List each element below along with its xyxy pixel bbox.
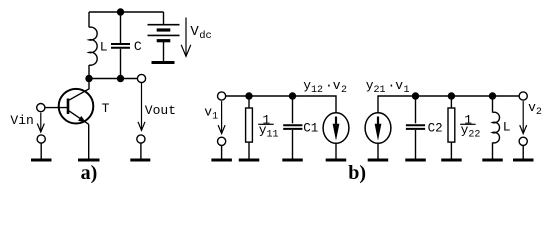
svg-text:2: 2: [341, 85, 347, 96]
inductor L (output): [493, 112, 500, 143]
wire R1 top stub: [248, 96, 250, 108]
wire emitter down: [88, 124, 90, 158]
inductor L: [89, 27, 97, 65]
ground source2: [368, 159, 389, 162]
wire L top stub: [88, 12, 90, 27]
svg-text:11: 11: [267, 129, 279, 140]
svg-text:T: T: [102, 101, 110, 116]
wire C2 top stub: [415, 96, 417, 123]
svg-text:22: 22: [468, 129, 480, 140]
ground Vin: [31, 159, 52, 162]
node Vin terminal bottom: [37, 135, 45, 143]
transistor base bar: [67, 99, 70, 115]
wire input rail: [226, 96, 336, 113]
node v1 terminal bottom: [218, 137, 226, 145]
svg-text:C: C: [134, 39, 142, 54]
arrow inside source 1: [335, 117, 337, 127]
svg-text:21: 21: [374, 85, 386, 96]
svg-text:y: y: [366, 78, 374, 93]
svg-text:V: V: [190, 24, 199, 40]
arrow Vdc: [181, 18, 191, 57]
svg-text:dc: dc: [199, 30, 212, 42]
wire R2 top stub: [450, 96, 452, 108]
ground C1: [282, 159, 303, 162]
wire Vin ground stub: [40, 143, 42, 159]
svg-text:·v: ·v: [325, 78, 341, 93]
node rail-R2 junction: [448, 92, 455, 99]
svg-text:Vout: Vout: [145, 103, 176, 118]
node rail-C1 junction: [289, 92, 296, 99]
node v2 terminal top: [519, 92, 527, 100]
ground emitter: [78, 159, 100, 162]
resistor 1/y22: [448, 108, 455, 142]
ground source1: [326, 159, 347, 162]
wire source2 top stub + output rail: [378, 96, 519, 113]
wire source1 bottom stub: [335, 143, 337, 158]
svg-text:Vin: Vin: [10, 113, 33, 128]
node rail-C2 junction: [412, 92, 419, 99]
wire R2 bottom stub: [450, 142, 452, 159]
wire L bottom stub: [88, 65, 90, 79]
node rail-C junction: [117, 75, 124, 82]
node v1 terminal top: [218, 92, 226, 100]
wire base lead: [45, 107, 67, 109]
wire C2 bottom stub: [415, 130, 417, 159]
transistor Q1 body: [59, 89, 94, 124]
arrow v2: [520, 101, 527, 134]
svg-text:1: 1: [212, 112, 218, 123]
wire top rail: [89, 11, 164, 13]
arrow inside source 2: [377, 117, 379, 127]
svg-text:1: 1: [404, 85, 410, 96]
svg-text:·v: ·v: [388, 78, 404, 93]
wire C top stub: [120, 12, 122, 43]
node rail-L junction: [489, 92, 496, 99]
current source y21·v1: [365, 113, 391, 144]
node rail-R1 junction: [245, 92, 252, 99]
svg-text:L: L: [503, 119, 511, 134]
node Vout terminal bottom: [137, 135, 145, 143]
capacitor C: [111, 44, 130, 48]
svg-text:a): a): [81, 162, 98, 184]
ground C2: [405, 159, 426, 162]
svg-text:v: v: [204, 104, 212, 119]
wire L2 bottom stub: [492, 143, 494, 159]
node rail-L junction: [85, 75, 92, 82]
arrow Vout: [138, 83, 145, 130]
node v2 terminal bottom: [519, 137, 527, 145]
current source y12·v2: [323, 113, 349, 144]
node Vin terminal top: [37, 104, 45, 112]
node top-rail junction: [117, 8, 124, 15]
ground R1: [239, 159, 259, 162]
svg-text:2: 2: [536, 107, 542, 118]
wire C1 bottom stub: [292, 130, 294, 159]
ground Vout: [130, 159, 150, 162]
wire collector lead: [69, 79, 89, 101]
svg-text:y: y: [303, 78, 311, 93]
svg-text:L: L: [100, 39, 108, 54]
capacitor C2: [406, 125, 425, 129]
label 1/y22: [461, 112, 481, 140]
wire Vout ground stub: [140, 143, 142, 159]
svg-text:12: 12: [311, 85, 323, 96]
label 1/y11: [259, 112, 279, 140]
label y21·v1: [366, 78, 410, 96]
wire source2 bottom stub: [377, 143, 379, 158]
ground v1: [211, 159, 232, 162]
svg-text:C1: C1: [303, 122, 318, 136]
wire emitter lead with arrow: [69, 111, 89, 125]
ground R2: [441, 159, 462, 162]
wire v1 ground stub: [221, 145, 223, 158]
battery Vdc plates: [148, 25, 180, 41]
wire L2 top stub: [492, 96, 494, 113]
wire v2 ground stub: [522, 145, 524, 158]
wire battery bottom stub: [163, 41, 165, 61]
ground L2: [482, 159, 503, 162]
resistor 1/y11: [246, 108, 253, 142]
arrow Vin: [37, 113, 44, 132]
wire C1 top stub: [292, 96, 294, 123]
capacitor C1: [283, 125, 302, 129]
wire battery top stub: [163, 12, 165, 25]
ground v2: [513, 159, 534, 162]
svg-text:C2: C2: [428, 122, 443, 136]
label y12·v2: [303, 78, 347, 96]
svg-text:b): b): [348, 162, 366, 184]
ground battery: [152, 61, 175, 64]
arrow v1: [218, 101, 225, 134]
wire C bottom stub: [120, 49, 122, 79]
svg-text:v: v: [528, 100, 536, 115]
wire collector rail (second rail): [89, 78, 137, 80]
node Vout terminal top: [137, 74, 145, 82]
wire R1 bottom stub: [248, 142, 250, 159]
